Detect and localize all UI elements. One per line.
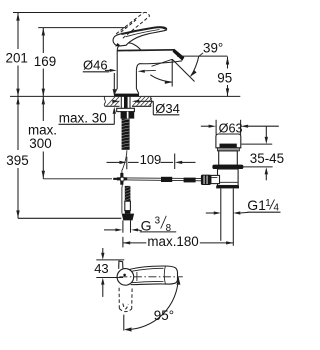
dimension 201 vertical line <box>17 13 19 50</box>
svg-text:39°: 39° <box>203 40 223 55</box>
wire: top reference line A (lever raised height) <box>13 12 142 14</box>
faucet body top / spout top edge <box>117 49 174 52</box>
svg-text:3: 3 <box>155 215 161 226</box>
faucet base plinth (dark) <box>114 94 139 97</box>
svg-text:43: 43 <box>94 261 108 276</box>
mounting shank in hole <box>120 96 122 108</box>
dimension 43 <box>96 259 124 261</box>
deck cross-section bottom lines <box>105 105 120 107</box>
dimension Ø63 <box>215 120 217 135</box>
wire: mounting deck reference line <box>10 95 240 97</box>
water jet line 39deg <box>172 59 194 81</box>
svg-text:201: 201 <box>6 51 28 66</box>
svg-text:Ø34: Ø34 <box>155 101 180 116</box>
svg-text:G: G <box>141 217 152 233</box>
lever blade top edge (dark) <box>122 27 165 34</box>
dimension arc 95deg <box>123 315 125 331</box>
pop-up rod horizontal <box>127 177 202 180</box>
svg-text:1: 1 <box>265 198 270 209</box>
svg-text:395: 395 <box>6 153 28 168</box>
hose tube end <box>122 220 124 232</box>
svg-text:max. 30: max. 30 <box>59 111 107 126</box>
waste body <box>218 169 239 186</box>
supply hose from shank <box>122 150 127 170</box>
faucet dome cap <box>117 43 141 50</box>
dimension 109 <box>107 161 120 163</box>
handle blade <box>129 266 177 285</box>
pop-up rod vertical section beside hose <box>121 187 123 213</box>
centerline dash-dot <box>119 276 182 278</box>
hose braided section <box>125 186 131 201</box>
lever handle solid <box>113 27 167 46</box>
dimension 95 vertical <box>227 57 229 69</box>
svg-text:Ø63: Ø63 <box>219 121 243 135</box>
handle rotated position (dashed) <box>119 288 132 312</box>
dimension Ø34 (hole) <box>112 100 119 103</box>
109 extension lines <box>126 157 128 170</box>
handle notch <box>119 261 123 269</box>
deck break squiggle <box>104 96 105 106</box>
aerator face line <box>152 59 173 66</box>
lever port <box>211 175 220 183</box>
washer under deck <box>117 108 135 111</box>
pop-up rod cross fitting <box>120 173 123 177</box>
deck hatching <box>107 97 153 106</box>
wire: 395 bottom reference line <box>18 217 121 219</box>
tailpipe <box>220 188 222 240</box>
svg-text:35-45: 35-45 <box>250 151 284 166</box>
dimension 169 vertical line <box>42 28 44 53</box>
mounting nut <box>121 112 135 119</box>
plug rim <box>217 148 239 151</box>
spout nose (dark) <box>173 49 185 61</box>
pop-up waste: plug cap <box>216 134 241 148</box>
wire: max300 bottom reference line to hose fitting <box>43 178 112 180</box>
handle pivot circle <box>117 269 134 286</box>
spout underside <box>136 61 182 71</box>
svg-text:300: 300 <box>29 136 51 151</box>
wire: reference line B (lever lowered height 169) <box>38 27 126 29</box>
dimension max.180 <box>122 237 124 248</box>
svg-text:8: 8 <box>166 223 172 234</box>
port knob (dark) <box>201 175 211 185</box>
aerator vertical reference line <box>171 59 173 87</box>
faucet body column <box>114 50 117 93</box>
svg-text:Ø46: Ø46 <box>83 58 108 73</box>
threaded stud (hatched) <box>122 119 130 150</box>
dimension max.300 vertical line <box>42 96 44 121</box>
svg-text:max.180: max.180 <box>147 234 198 249</box>
svg-text:95: 95 <box>217 71 232 86</box>
svg-text:95°: 95° <box>154 308 174 323</box>
lever handle raised (dashed) <box>116 12 149 38</box>
svg-text:G1: G1 <box>247 197 266 213</box>
plug neck <box>219 151 238 165</box>
waste body bottom band <box>216 186 239 189</box>
hose end nut G3/8 <box>122 214 134 221</box>
seat flange <box>212 165 243 169</box>
dimension 35-45 <box>242 143 273 145</box>
svg-text:169: 169 <box>34 54 56 69</box>
dimension 395 vertical line <box>17 96 19 150</box>
svg-text:109: 109 <box>140 152 162 167</box>
